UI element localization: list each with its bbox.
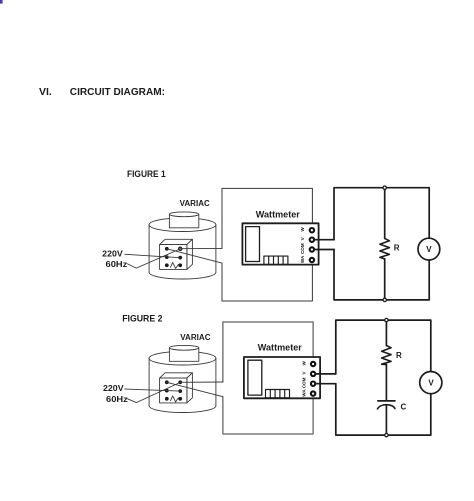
terminal posts fig2: [311, 362, 315, 396]
svg-text:60Hz: 60Hz: [106, 394, 128, 404]
meter terminal strip fig2: [266, 390, 290, 398]
branch wire fig1: [384, 188, 386, 300]
wire panel to wattmeter (top) fig2: [180, 381, 223, 383]
meter display window fig2: [248, 360, 262, 395]
wattmeter meter body fig2: [244, 357, 320, 398]
node bottom fig2: [385, 433, 388, 436]
svg-text:Wattmeter: Wattmeter: [256, 210, 300, 220]
voltmeter V fig2: [420, 372, 442, 394]
load box fig2: [336, 320, 431, 435]
branch wire fig2: [385, 320, 387, 435]
terminal labels W V COM WA fig2: [301, 360, 306, 396]
svg-text:V: V: [426, 245, 432, 254]
terminal labels W V COM WA: [300, 227, 305, 263]
svg-text:COM: COM: [300, 243, 305, 254]
svg-text:220V: 220V: [102, 248, 123, 258]
node bottom fig1: [383, 298, 386, 301]
variac T1 terminal panel: [160, 239, 193, 269]
wire terminal COM to load: [314, 249, 334, 251]
wattmeter meter body: [242, 223, 318, 264]
scan artifact corner mark: [0, 0, 3, 4]
svg-text:VARIAC: VARIAC: [180, 333, 210, 342]
variac T2 knob: [169, 345, 198, 361]
svg-text:220V: 220V: [103, 383, 124, 393]
capacitor C fig2 bottom plate: [378, 405, 395, 409]
wattmeter U2 enclosure: [223, 322, 313, 434]
terminal posts (4 circles): [310, 228, 314, 262]
svg-text:FIGURE 2: FIGURE 2: [122, 314, 162, 324]
resistor R fig1: [380, 238, 390, 258]
svg-text:VARIAC: VARIAC: [180, 199, 210, 208]
panel winding squiggle fig2: [171, 396, 179, 402]
wire 60Hz to panel fig2: [128, 382, 181, 402]
wire terminal V to load fig2: [316, 373, 336, 375]
panel terminal dots: [165, 247, 182, 267]
panel winding squiggle: [171, 262, 179, 268]
wire 220V to panel fig2: [125, 389, 180, 391]
svg-text:COM: COM: [301, 377, 306, 388]
wire panel to wattmeter (diagonal) fig2: [167, 382, 223, 396]
wire panel to wattmeter (top): [180, 247, 222, 249]
panel terminal dots fig2: [165, 380, 182, 400]
wire terminal V to load: [314, 239, 334, 241]
svg-text:FIGURE 1: FIGURE 1: [127, 169, 166, 179]
svg-text:W: W: [300, 227, 305, 232]
svg-text:V: V: [428, 379, 434, 388]
load box fig1: [334, 188, 429, 300]
variac T1 drum body: [149, 218, 216, 279]
svg-text:Wattmeter: Wattmeter: [258, 343, 302, 353]
variac T2 drum body: [149, 351, 216, 412]
wire 60Hz to panel: [128, 249, 181, 268]
svg-text:VI.: VI.: [39, 86, 52, 98]
resistor R fig2: [382, 346, 392, 365]
svg-text:60Hz: 60Hz: [106, 259, 128, 269]
svg-text:CIRCUIT DIAGRAM:: CIRCUIT DIAGRAM:: [70, 86, 165, 98]
meter display window: [246, 227, 260, 262]
wire panel to wattmeter (diagonal): [167, 249, 222, 263]
variac T2 terminal panel: [160, 373, 193, 403]
svg-text:R: R: [394, 244, 400, 253]
wire 220V to panel: [125, 254, 180, 257]
voltmeter V fig1: [418, 238, 440, 260]
meter terminal strip: [264, 256, 288, 264]
variac T1 knob: [169, 212, 198, 228]
capacitor C fig2 top plate: [378, 400, 395, 402]
svg-text:C: C: [401, 402, 407, 411]
svg-text:WA: WA: [301, 389, 306, 397]
svg-text:WA: WA: [300, 255, 305, 263]
node top fig1: [383, 186, 386, 189]
svg-text:R: R: [396, 351, 402, 360]
wire terminal COM to load fig2: [316, 383, 336, 385]
node top fig2: [385, 318, 388, 321]
wattmeter U1 enclosure: [222, 188, 312, 301]
svg-text:W: W: [301, 360, 306, 365]
